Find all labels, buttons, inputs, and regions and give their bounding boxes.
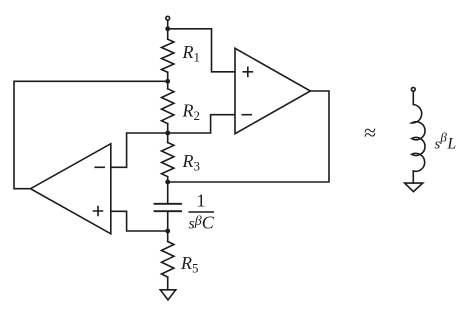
- wire terminal to node: [167, 21, 169, 29]
- wire node to R1: [167, 29, 169, 39]
- wire node B to U1 - input: [168, 115, 235, 133]
- wire terminal to coil: [412, 92, 414, 105]
- wire node to U1 + input: [168, 29, 235, 72]
- op-amp U2 minus sign: [95, 166, 104, 168]
- op-amp U2 plus sign: [94, 207, 103, 216]
- label capacitor fraction bar: [189, 211, 215, 213]
- resistor R2: [162, 89, 174, 124]
- node A dot: [165, 79, 170, 84]
- wire node B to U2 - input: [112, 133, 168, 167]
- wire node A to R2: [167, 81, 169, 89]
- wire capacitor to node D: [167, 211, 169, 231]
- capacitor C top plate: [155, 203, 182, 205]
- wire R2 to node B: [167, 124, 169, 133]
- op-amp U1 plus sign: [243, 67, 252, 76]
- node C dot: [165, 180, 170, 185]
- input terminal (open circle): [166, 16, 170, 20]
- wire R3 to node C: [167, 177, 169, 182]
- op-amp U2: [31, 144, 111, 234]
- resistor R1: [162, 39, 174, 72]
- wire coil to ground: [412, 171, 414, 183]
- wire node D to R5: [167, 231, 169, 242]
- svg-text:sβC: sβC: [189, 213, 215, 233]
- op-amp U1: [235, 48, 310, 133]
- wire R1 to node A: [167, 72, 169, 81]
- resistor R3: [162, 143, 174, 177]
- resistor R5: [162, 242, 174, 277]
- node junction dot top: [165, 26, 170, 31]
- wire U1 output loop to node C: [168, 91, 329, 182]
- node D dot: [165, 229, 170, 234]
- capacitor C bottom plate: [155, 210, 182, 212]
- wire node B to R3: [167, 133, 169, 143]
- svg-text:1: 1: [197, 191, 206, 211]
- node B dot: [165, 131, 170, 136]
- wire node C to capacitor: [167, 182, 169, 204]
- ground (circuit): [160, 290, 175, 300]
- op-amp U1 minus sign: [242, 114, 251, 116]
- svg-text:≈: ≈: [364, 120, 376, 145]
- inductor L coil: [412, 105, 425, 172]
- inductor terminal (open circle): [411, 87, 415, 91]
- wire feedback node A to U2 output: [14, 81, 168, 188]
- ground (inductor): [405, 183, 423, 192]
- wire R5 to ground: [167, 277, 169, 290]
- wire node D to U2 + input: [112, 211, 168, 231]
